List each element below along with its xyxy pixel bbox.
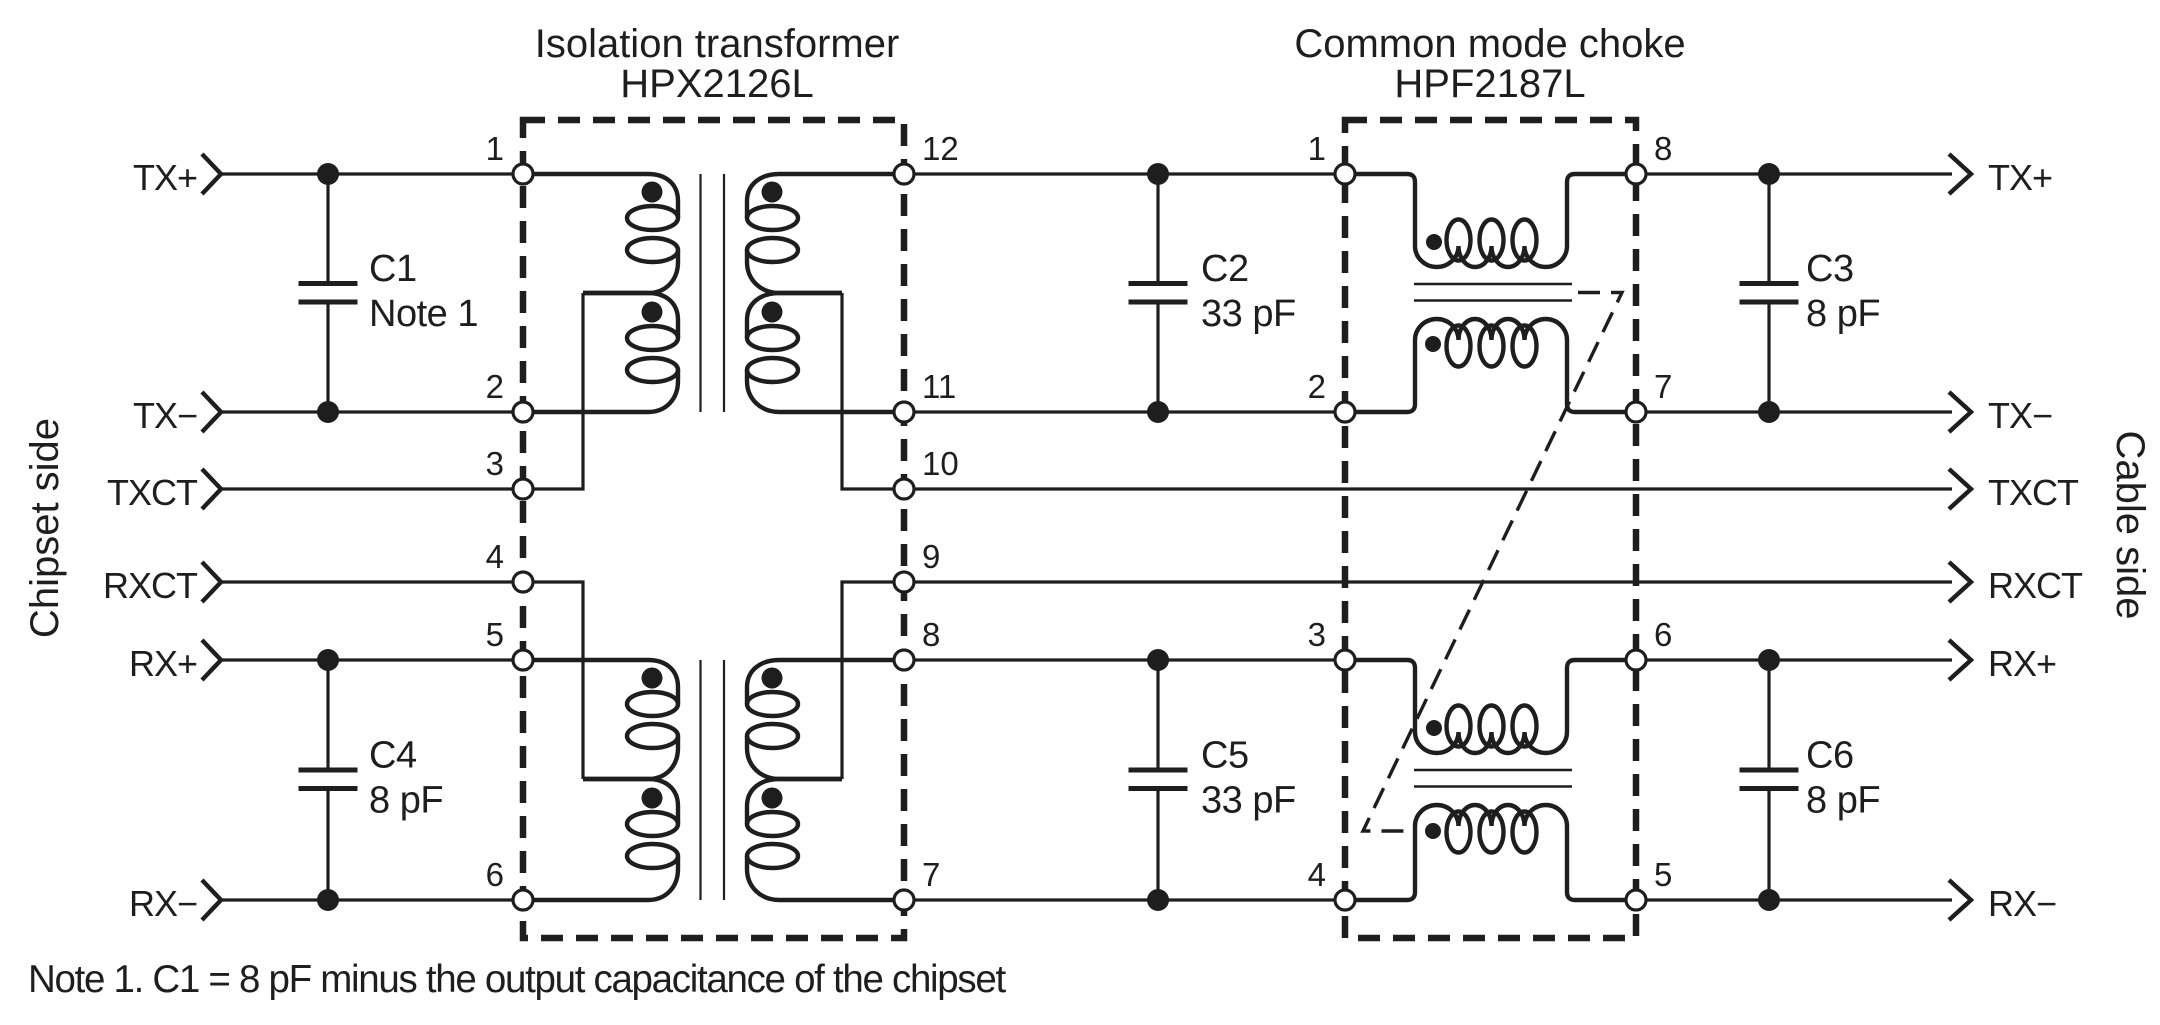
svg-text:TX−: TX− — [1988, 395, 2052, 436]
svg-text:5: 5 — [1654, 856, 1672, 893]
wire TX+ segment 3 — [1636, 172, 1952, 175]
svg-text:9: 9 — [922, 538, 940, 575]
svg-text:2: 2 — [1308, 368, 1326, 405]
transformer pin 7 terminal — [894, 890, 914, 910]
svg-text:RX+: RX+ — [1988, 643, 2056, 684]
svg-text:HPF2187L: HPF2187L — [1394, 62, 1585, 106]
choke L1 phase dot winding 1-8 — [1426, 234, 1442, 250]
transformer T2 phase dot winding 9-7 — [762, 788, 783, 809]
transformer pin 6 terminal — [513, 890, 533, 910]
svg-text:RX−: RX− — [1988, 883, 2056, 924]
wire RX- segment 3 — [1636, 898, 1952, 901]
svg-text:Isolation transformer: Isolation transformer — [535, 22, 900, 66]
svg-text:RXCT: RXCT — [1988, 565, 2083, 606]
chipset-side input arrow RXCT — [202, 562, 221, 602]
transformer T1 primary winding lower (pins 3-2) — [583, 293, 678, 338]
chipset-side input arrow RX- — [202, 880, 221, 920]
transformer pin 5 terminal — [513, 650, 533, 670]
wire C5 top stem — [1156, 660, 1159, 768]
cable-side output arrow TX- — [1949, 392, 1971, 432]
svg-text:8: 8 — [922, 616, 940, 653]
junction dot C2 top — [1147, 163, 1169, 185]
wire C5 bottom stem — [1156, 791, 1159, 901]
svg-text:8 pF: 8 pF — [369, 780, 443, 822]
wire T1 primary center tap to pin 3 — [523, 293, 583, 489]
choke pin 5 terminal — [1626, 890, 1646, 910]
svg-text:C5: C5 — [1201, 735, 1249, 777]
junction dot C6 bottom — [1758, 889, 1780, 911]
junction dot C4 bottom — [317, 889, 339, 911]
choke pin 6 terminal — [1626, 650, 1646, 670]
svg-text:HPX2126L: HPX2126L — [620, 62, 813, 106]
wire RX- segment 1 — [221, 898, 523, 901]
choke pin 7 terminal — [1626, 402, 1646, 422]
wire C3 top stem — [1767, 174, 1770, 282]
junction dot C1 bottom — [317, 401, 339, 423]
choke pin 3 terminal — [1335, 650, 1355, 670]
svg-text:RX+: RX+ — [129, 643, 197, 684]
transformer T1 core lines — [699, 174, 701, 412]
svg-text:2: 2 — [486, 368, 504, 405]
choke L1 winding pins 2-7 — [1345, 340, 1415, 412]
svg-text:4: 4 — [1308, 856, 1326, 893]
svg-text:10: 10 — [922, 445, 959, 482]
transformer pin 10 terminal — [894, 479, 914, 499]
choke pin 2 terminal — [1335, 402, 1355, 422]
choke L2 winding pins 3-6 — [1345, 660, 1415, 732]
transformer pin 12 terminal — [894, 164, 914, 184]
junction dot C3 bottom — [1758, 401, 1780, 423]
wire C4 top stem — [326, 660, 329, 768]
transformer HPX2126L dashed box — [523, 120, 904, 938]
svg-text:8 pF: 8 pF — [1806, 780, 1880, 822]
svg-text:33 pF: 33 pF — [1201, 780, 1296, 822]
svg-text:1: 1 — [486, 130, 504, 167]
svg-text:Chipset side: Chipset side — [23, 418, 67, 638]
transformer T1 phase dot winding 10-11 — [762, 302, 783, 323]
transformer T1 secondary winding lower (pins 10-11) — [747, 293, 842, 338]
choke L1 core lines — [1414, 283, 1572, 286]
capacitor C5 plates — [1129, 768, 1188, 773]
svg-text:RX−: RX− — [129, 883, 197, 924]
transformer pin 1 terminal — [513, 164, 533, 184]
choke pin 4 terminal — [1335, 890, 1355, 910]
wire TX+ segment 1 — [221, 172, 523, 175]
capacitor C3 plates — [1740, 281, 1799, 286]
transformer T1 secondary winding upper (pins 12-10) — [747, 174, 904, 218]
junction dot C2 bottom — [1147, 401, 1169, 423]
svg-text:RXCT: RXCT — [103, 565, 198, 606]
wire RXCT segment 1 — [221, 580, 523, 583]
wire C6 bottom stem — [1767, 791, 1770, 901]
junction dot C1 top — [317, 163, 339, 185]
transformer pin 3 terminal — [513, 479, 533, 499]
svg-text:6: 6 — [1654, 616, 1672, 653]
svg-text:8 pF: 8 pF — [1806, 293, 1880, 335]
wire C1 top stem — [326, 174, 329, 282]
chipset-side input arrow TX+ — [202, 154, 221, 194]
transformer pin 2 terminal — [513, 402, 533, 422]
transformer T2 phase dot winding 4-6 — [642, 788, 663, 809]
svg-text:12: 12 — [922, 130, 959, 167]
transformer T2 phase dot winding 8-9 — [762, 668, 783, 689]
svg-text:C4: C4 — [369, 735, 417, 777]
choke L2 phase dot winding 4-5 — [1425, 823, 1441, 839]
choke L1 phase dot winding 2-7 — [1425, 336, 1441, 352]
svg-text:3: 3 — [486, 445, 504, 482]
svg-text:C6: C6 — [1806, 735, 1854, 777]
wire T2 primary center tap to pin 4 — [523, 582, 583, 779]
wire T2 secondary center tap to pin 9 — [842, 582, 904, 779]
svg-text:8: 8 — [1654, 130, 1672, 167]
svg-text:4: 4 — [486, 538, 504, 575]
wire TXCT segment 2 — [904, 487, 1952, 490]
capacitor C1 plates — [299, 281, 358, 286]
svg-text:5: 5 — [486, 616, 504, 653]
choke L2 core lines — [1414, 769, 1572, 772]
wire C3 bottom stem — [1767, 304, 1770, 412]
transformer T1 primary winding upper (pins 1-3) — [523, 174, 678, 218]
cable-side output arrow RX- — [1949, 880, 1971, 920]
chipset-side input arrow TX- — [202, 392, 221, 432]
cable-side output arrow TXCT — [1949, 469, 1971, 509]
transformer T1 phase dot winding 1-3 — [642, 182, 663, 203]
svg-text:TX+: TX+ — [133, 157, 197, 198]
cable-side output arrow TX+ — [1949, 154, 1971, 194]
wire RX+ segment 1 — [221, 658, 523, 661]
transformer pin 11 terminal — [894, 402, 914, 422]
svg-text:TXCT: TXCT — [1988, 472, 2079, 513]
svg-text:Common mode choke: Common mode choke — [1294, 22, 1685, 66]
svg-text:C1: C1 — [369, 248, 417, 290]
junction dot C3 top — [1758, 163, 1780, 185]
choke L2 winding pins 4-5 — [1345, 826, 1415, 900]
capacitor C6 plates — [1740, 768, 1799, 773]
wire C1 bottom stem — [326, 304, 329, 412]
transformer T2 primary winding lower (pins 4-6) — [583, 779, 678, 824]
wire C4 bottom stem — [326, 791, 329, 901]
transformer pin 4 terminal — [513, 572, 533, 592]
transformer T2 phase dot winding 5-4 — [642, 668, 663, 689]
chipset-side input arrow RX+ — [202, 640, 221, 680]
svg-text:33 pF: 33 pF — [1201, 293, 1296, 335]
transformer pin 8 terminal — [894, 650, 914, 670]
capacitor C2 plates — [1129, 281, 1188, 286]
svg-text:Cable side: Cable side — [2108, 430, 2152, 619]
chipset-side input arrow TXCT — [202, 469, 221, 509]
wire TX- segment 1 — [221, 410, 523, 413]
wire TXCT segment 1 — [221, 487, 523, 490]
junction dot C5 bottom — [1147, 889, 1169, 911]
wire C2 top stem — [1156, 174, 1159, 282]
wire TX- segment 3 — [1636, 410, 1952, 413]
cable-side output arrow RX+ — [1949, 640, 1971, 680]
wire T1 secondary center tap to pin 10 — [842, 293, 904, 489]
svg-text:Note 1: Note 1 — [369, 293, 478, 335]
wire RX- segment 2 — [904, 898, 1345, 901]
cable-side output arrow RXCT — [1949, 562, 1971, 602]
transformer T2 core lines — [699, 660, 701, 900]
junction dot C4 top — [317, 649, 339, 671]
choke L2 phase dot winding 3-6 — [1426, 720, 1442, 736]
transformer T2 secondary winding lower (pins 9-7) — [747, 779, 842, 824]
choke L1 winding pins 1-8 — [1345, 174, 1415, 246]
capacitor C4 plates — [299, 768, 358, 773]
wire RX+ segment 3 — [1636, 658, 1952, 661]
junction dot C6 top — [1758, 649, 1780, 671]
transformer pin 9 terminal — [894, 572, 914, 592]
choke winding crossover dashed line — [1363, 293, 1622, 832]
wire C2 bottom stem — [1156, 304, 1159, 412]
svg-text:C2: C2 — [1201, 248, 1249, 290]
transformer T1 phase dot winding 12-10 — [762, 182, 783, 203]
svg-text:6: 6 — [486, 856, 504, 893]
common mode choke HPF2187L dashed box — [1345, 120, 1636, 938]
transformer T1 phase dot winding 3-2 — [642, 302, 663, 323]
svg-text:1: 1 — [1308, 130, 1326, 167]
svg-text:7: 7 — [1654, 368, 1672, 405]
svg-text:11: 11 — [922, 368, 956, 405]
choke pin 1 terminal — [1335, 164, 1355, 184]
choke pin 8 terminal — [1626, 164, 1646, 184]
svg-text:C3: C3 — [1806, 248, 1854, 290]
wire RXCT segment 2 — [904, 580, 1952, 583]
wire TX- segment 2 — [904, 410, 1345, 413]
svg-text:Note 1. C1 = 8 pF minus the ou: Note 1. C1 = 8 pF minus the output capac… — [28, 958, 1006, 1001]
svg-text:TX−: TX− — [133, 395, 197, 436]
wire C6 top stem — [1767, 660, 1770, 768]
wire RX+ segment 2 — [904, 658, 1345, 661]
svg-text:TX+: TX+ — [1988, 157, 2052, 198]
svg-text:TXCT: TXCT — [107, 472, 198, 513]
transformer T2 secondary winding upper (pins 8-9) — [747, 660, 904, 704]
junction dot C5 top — [1147, 649, 1169, 671]
svg-text:3: 3 — [1308, 616, 1326, 653]
svg-text:7: 7 — [922, 856, 940, 893]
transformer T2 primary winding upper (pins 5-4) — [523, 660, 678, 704]
wire TX+ segment 2 — [904, 172, 1345, 175]
